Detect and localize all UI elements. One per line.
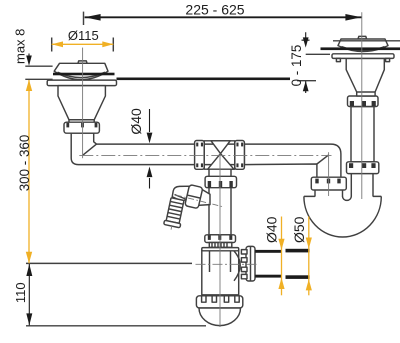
dimension 300 - 360 [17, 80, 32, 264]
dimension Ø115 [52, 28, 114, 52]
left strainer flange [47, 80, 116, 86]
left strainer funnel [58, 86, 105, 120]
U-bend right nut [347, 162, 379, 174]
right strainer funnel [346, 58, 384, 96]
left strainer cap [54, 61, 108, 80]
dishwasher hose union nut [185, 185, 203, 209]
centerline right strainer [361, 12, 363, 199]
trap outlet nut [241, 246, 255, 281]
trap top cap band [202, 248, 239, 251]
U-bend bowl top edges [304, 195, 381, 197]
centerline horizontal pipe [79, 154, 331, 156]
dishwasher hose elbow [172, 186, 191, 201]
trap threaded collar [209, 243, 232, 248]
U-bend inner arch [343, 196, 352, 200]
centerline trap outlet [196, 263, 259, 265]
svg-text:Ø40: Ø40 [264, 216, 280, 243]
svg-text:225 - 625: 225 - 625 [185, 1, 244, 17]
svg-text:300 - 360: 300 - 360 [17, 135, 32, 192]
trap bottom ring [196, 296, 242, 308]
dimension 0 - 175 [289, 32, 330, 93]
tee lower big nut [205, 176, 236, 187]
svg-text:max 8: max 8 [12, 29, 27, 64]
left sink deck line (thick) [53, 73, 115, 76]
centerline left strainer [82, 48, 84, 159]
left elbow and horizontal pipe to tee [71, 133, 195, 165]
U-bend left nut [311, 177, 346, 190]
right tailpipe [351, 107, 374, 162]
svg-text:Ø50: Ø50 [291, 216, 307, 243]
dishwasher hose corrugated tail [163, 197, 186, 231]
trap bottom dome [199, 308, 241, 326]
tee internal cone [211, 141, 230, 154]
worktop long line (thick) [117, 78, 291, 81]
right sink upper position thin line [333, 40, 400, 42]
tee body [204, 141, 235, 169]
right sink deck line (thick) [321, 47, 400, 50]
dimension max 8 [12, 29, 32, 66]
centerline tee and trap [219, 154, 221, 327]
dimension 225 - 625 [84, 1, 362, 25]
left strainer coupling nut [64, 120, 99, 133]
pipe from tee to right elbow, elbow down [244, 144, 341, 177]
svg-text:Ø40: Ø40 [128, 108, 144, 135]
U-bend bowl [304, 196, 381, 237]
tee right nut [235, 141, 245, 170]
right tailpipe upper nut [348, 96, 379, 107]
dishwasher hose neck [198, 188, 211, 205]
dimension Ø40 at pipe [128, 108, 152, 189]
svg-text:0 - 175: 0 - 175 [289, 45, 304, 87]
trap inlet nut [205, 235, 236, 243]
left deck thin edge lines [25, 66, 52, 79]
dimension Ø50 at outlet [291, 216, 312, 295]
trap outlet pipe walls Ø50 section [286, 249, 310, 279]
reference line 110 top [26, 262, 192, 264]
trap outlet pipe walls Ø40 section [255, 250, 281, 278]
dimension 110 [13, 264, 32, 325]
right strainer flange [332, 54, 394, 62]
reference line 110 bottom [26, 325, 206, 327]
centerline dishwasher branch [176, 195, 222, 207]
tee left nut [195, 141, 205, 170]
svg-text:110: 110 [13, 282, 28, 303]
trap body [202, 250, 240, 295]
centerline tick right elbow [328, 152, 330, 196]
svg-text:Ø115: Ø115 [68, 28, 99, 43]
U-bend left arm [315, 190, 343, 197]
U-bend right arm [351, 174, 373, 197]
right strainer cap [338, 36, 388, 51]
dimension Ø40 at outlet [264, 216, 285, 295]
vertical branch pipe below tee [209, 169, 231, 235]
